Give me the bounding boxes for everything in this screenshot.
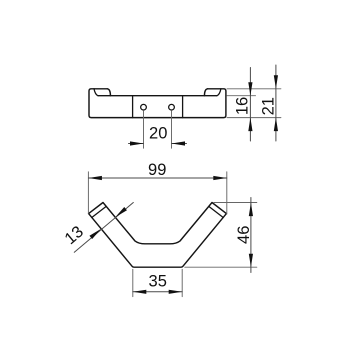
svg-text:21: 21 [259,97,277,115]
dim 20 extension line left [143,111,145,149]
dim 13 dimension line [74,203,133,253]
dim 21 extension line (lip top) [227,88,281,90]
dim 20 dimension line right part [172,143,187,145]
dim 35 right arrowhead [169,290,183,294]
svg-text:16: 16 [234,97,252,115]
dim 99 right arrowhead [213,176,227,180]
bottom view: V hook silhouette [89,203,227,268]
top view: rail outline [89,89,226,118]
dim 21 bottom arrowhead [274,118,278,132]
dim 20 left arrowhead [130,141,144,145]
dim 16 extension line (main top) [227,95,256,97]
dim 20 dimension line left part [129,143,144,145]
dim 13 upper arrowhead [115,207,127,217]
dim 16 top arrowhead [248,82,252,96]
dim 21 dimension line [275,65,277,141]
dim 46 dimension line [250,198,252,273]
dim 99 extension line right [226,172,228,214]
top view: right lip outer curve [204,89,207,96]
dim 46 extension line bottom [185,266,257,268]
top view: left divider line [132,96,134,118]
top view: left screw hole [141,104,147,110]
dim 35 extension line right [181,269,183,296]
bottom view: right tip chamfer line [209,206,223,217]
dim 21 top arrowhead [274,75,278,89]
dim 16 dimension line [249,68,251,142]
top view: right lip inner curve [217,89,221,96]
dim 99 extension line left [87,172,89,213]
dim 99 left arrowhead [88,176,102,180]
top view: left lip inner curve [94,89,98,96]
dim 35 dimension line [133,291,182,293]
svg-text:46: 46 [235,226,253,244]
dim 35 extension line left [132,269,134,296]
dim 46 top arrowhead [249,203,253,217]
top view: main top edge [98,95,217,97]
dim 20 extension line right [171,111,173,149]
top view: left lip outer curve [107,89,110,96]
dim 16 bottom arrowhead [248,118,252,132]
dim 99 dimension line [88,177,226,179]
svg-text:20: 20 [149,125,167,143]
top view: right divider line [182,96,184,118]
svg-text:35: 35 [149,272,167,290]
dim 46 bottom arrowhead [249,254,253,268]
dim 35 left arrowhead [133,290,147,294]
svg-text:99: 99 [148,161,166,179]
dim 46 extension line top [214,202,257,204]
dim 20 right arrowhead [172,141,186,145]
dim 13 lower arrowhead [89,229,101,239]
bottom view: left tip chamfer line [92,206,106,217]
dim 16/21 extension line (bottom) [227,117,281,119]
top view: right screw hole [169,104,175,110]
